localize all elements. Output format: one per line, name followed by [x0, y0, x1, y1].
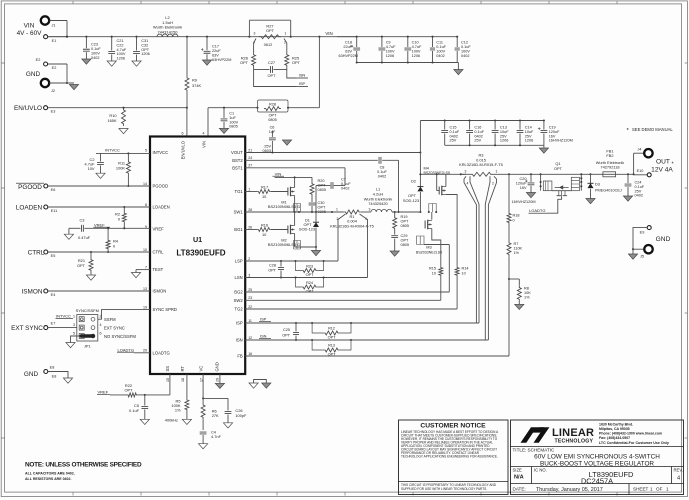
svg-text:15: 15	[166, 378, 170, 382]
svg-text:LOADEN: LOADEN	[16, 205, 43, 212]
svg-text:1uF: 1uF	[269, 130, 276, 134]
svg-text:EN/UVLO: EN/UVLO	[181, 140, 186, 159]
svg-text:E11: E11	[51, 209, 57, 213]
resistor R12 OPT	[311, 322, 352, 339]
capacitor C30 OPT 0805	[309, 201, 326, 214]
svg-text:TECHNOLOGY: TECHNOLOGY	[555, 439, 594, 445]
svg-text:C7: C7	[341, 178, 346, 182]
wire TEST to gnd	[136, 270, 150, 273]
svg-text:OPT: OPT	[240, 60, 249, 65]
svg-text:CTRL: CTRL	[153, 250, 165, 255]
resistor R8 10K 1%	[509, 279, 531, 304]
svg-text:C12: C12	[461, 41, 468, 45]
svg-text:C24: C24	[635, 181, 642, 185]
svg-text:0.1uF: 0.1uF	[635, 185, 645, 189]
svg-text:100V: 100V	[229, 120, 238, 124]
ground R10	[119, 129, 128, 134]
terminal E4	[44, 289, 56, 297]
svg-text:C29: C29	[401, 234, 408, 238]
connector JP1 SYNC/SSFM	[56, 308, 137, 348]
note capacitors	[25, 472, 75, 476]
svg-text:LT8390EUFD: LT8390EUFD	[176, 248, 225, 257]
svg-text:VREF: VREF	[98, 389, 109, 394]
svg-text:2: 2	[492, 182, 494, 186]
wire VC pin	[202, 374, 228, 399]
svg-text:ISN: ISN	[260, 334, 267, 339]
size ic rev row	[513, 468, 683, 486]
svg-text:0.1uF: 0.1uF	[461, 45, 471, 49]
terminal E3	[44, 106, 56, 114]
wire R1 kelvin LSN	[360, 214, 368, 278]
wire R3 kelvin funnel left	[464, 176, 479, 323]
svg-text:VREF: VREF	[94, 222, 105, 227]
ground C17	[202, 60, 211, 65]
wire PGOOD row	[48, 185, 150, 187]
svg-text:0.47uF: 0.47uF	[78, 235, 91, 240]
svg-text:10uF: 10uF	[525, 130, 534, 134]
label GND out	[656, 236, 671, 243]
svg-text:2: 2	[248, 257, 250, 261]
svg-text:LTC Confidential-For Customer: LTC Confidential-For Customer Use Only	[599, 441, 669, 445]
svg-text:C28: C28	[269, 264, 276, 268]
svg-text:OPT: OPT	[306, 273, 314, 277]
svg-text:7: 7	[145, 265, 147, 269]
wire INTVCC	[96, 147, 150, 154]
resistor R20 OPT 0805	[310, 177, 326, 202]
capacitor C10 4.7uF	[404, 37, 422, 63]
wire BST2 row pin24	[245, 159, 378, 161]
connector J4 OUT	[638, 148, 653, 158]
ground C29	[390, 251, 399, 256]
ground R8	[515, 304, 524, 309]
svg-text:18: 18	[181, 378, 185, 382]
label ISMON	[22, 289, 43, 296]
svg-text:100K: 100K	[116, 165, 125, 170]
svg-text:10uF: 10uF	[500, 130, 509, 134]
resistor R11 100K	[116, 153, 130, 187]
diode D2 OPT SOD-123	[403, 153, 424, 213]
svg-text:INTVCC: INTVCC	[105, 147, 120, 152]
svg-text:E1: E1	[52, 39, 57, 43]
svg-text:LSP: LSP	[235, 259, 243, 264]
svg-text:VOUT: VOUT	[231, 150, 243, 155]
svg-text:SIZE: SIZE	[513, 468, 523, 473]
svg-text:0: 0	[513, 218, 515, 222]
svg-text:TEST: TEST	[153, 267, 164, 272]
label VIN 4V-60V	[17, 23, 43, 38]
svg-text:0402: 0402	[341, 187, 349, 191]
svg-text:16: 16	[248, 352, 252, 356]
svg-text:742792118: 742792118	[600, 165, 619, 170]
svg-text:SSFM: SSFM	[104, 317, 116, 322]
wire SS pin	[144, 374, 170, 396]
ground C23	[82, 59, 91, 64]
svg-text:SOD-123: SOD-123	[403, 198, 419, 203]
svg-text:EXT SYNC: EXT SYNC	[11, 325, 43, 332]
svg-text:BSZ100N06LS3 G: BSZ100N06LS3 G	[268, 204, 300, 209]
svg-text:16V: 16V	[520, 186, 527, 190]
ground R5	[182, 419, 191, 424]
svg-text:ISMON: ISMON	[153, 289, 167, 294]
svg-text:FB2: FB2	[606, 153, 613, 158]
svg-text:26: 26	[248, 225, 252, 229]
svg-text:REV.: REV.	[674, 468, 683, 473]
svg-text:1: 1	[496, 170, 498, 174]
ground C6	[282, 140, 291, 145]
svg-text:0805: 0805	[268, 118, 276, 122]
svg-text:29: 29	[215, 378, 219, 382]
svg-text:OPT: OPT	[318, 206, 326, 210]
svg-text:R20: R20	[318, 179, 325, 183]
net LOADTG right	[529, 197, 562, 213]
svg-text:OF: OF	[656, 487, 663, 492]
wire M2 source gnd	[295, 246, 317, 251]
wire BG1 row pin26	[245, 229, 257, 231]
svg-text:10K: 10K	[524, 291, 531, 295]
svg-text:VIN: VIN	[275, 171, 282, 176]
wire VIN local row	[273, 171, 313, 178]
wire TG1 row pin1	[245, 191, 257, 193]
svg-text:R17: R17	[261, 184, 268, 189]
capacitor C25 OPT	[282, 323, 299, 341]
capacitor C1 1uF 100V	[221, 108, 239, 129]
svg-text:KRL3216D-M-R015-F-T5: KRL3216D-M-R015-F-T5	[459, 162, 503, 167]
wire VIN pin feed	[208, 37, 319, 137]
svg-text:3: 3	[369, 208, 371, 212]
svg-text:0612: 0612	[264, 43, 272, 47]
svg-text:R8: R8	[524, 287, 529, 291]
svg-text:Fax: (408)434-0507: Fax: (408)434-0507	[599, 436, 630, 440]
wire ISN row pin12	[245, 334, 488, 340]
date sheet row	[513, 487, 670, 493]
terminal E8	[44, 366, 57, 379]
svg-text:C14: C14	[525, 126, 532, 130]
wire GND pin	[219, 374, 221, 383]
gate loop M3	[417, 236, 450, 245]
svg-text:100V: 100V	[386, 50, 395, 54]
ground M2/D1	[311, 251, 320, 256]
svg-text:R28: R28	[269, 102, 276, 106]
svg-text:ALL RESISTORS ARE 0402.: ALL RESISTORS ARE 0402.	[25, 477, 71, 481]
net ISP stub	[254, 70, 308, 87]
ground J5	[628, 249, 637, 259]
wire JP1 pin5 ground	[71, 336, 80, 343]
svg-text:63V: 63V	[345, 50, 352, 54]
svg-text:FB: FB	[237, 354, 243, 359]
resistor R13 OPT	[311, 339, 352, 356]
svg-text:NOTE: UNLESS OTHERWISE SPECIFI: NOTE: UNLESS OTHERWISE SPECIFIED	[25, 462, 142, 469]
resistor R5 100K 1%	[165, 374, 189, 422]
ground C3	[64, 234, 73, 239]
svg-text:0402: 0402	[635, 194, 643, 198]
op-amp U1 LT8390EUFD	[143, 132, 252, 383]
capacitor C8 0.1uF bootstrap2	[377, 157, 398, 212]
svg-text:25V: 25V	[264, 145, 271, 149]
ground C24	[623, 196, 632, 201]
svg-text:1206: 1206	[500, 139, 508, 143]
resistor R22 OPT	[110, 383, 145, 397]
svg-text:LOADTG: LOADTG	[118, 347, 134, 352]
gate loop M4	[428, 204, 438, 214]
svg-text:1: 1	[336, 208, 338, 212]
svg-text:J4: J4	[638, 148, 642, 152]
capacitor C24 0.1uF 25V	[625, 174, 645, 197]
svg-text:VIN: VIN	[325, 31, 332, 36]
svg-text:OPT: OPT	[282, 334, 290, 338]
svg-text:25V: 25V	[635, 189, 642, 193]
svg-text:10: 10	[143, 248, 147, 252]
svg-text:C25: C25	[283, 328, 290, 332]
svg-text:1206: 1206	[117, 57, 125, 61]
svg-text:TITLE: SCHEMATIC: TITLE: SCHEMATIC	[513, 448, 555, 453]
svg-text:16V: 16V	[549, 134, 556, 138]
ground cap bank	[454, 70, 463, 75]
svg-text:OPT: OPT	[268, 268, 276, 272]
capacitor C21 C22 4.7uF	[108, 37, 127, 61]
wire J1-E1 to rail	[48, 21, 68, 38]
svg-text:5: 5	[145, 148, 147, 152]
ground C5	[140, 419, 149, 424]
svg-text:C6: C6	[270, 126, 275, 130]
wire EXT SYNC row	[48, 327, 77, 329]
svg-text:R16: R16	[261, 222, 268, 227]
ground C1	[219, 128, 228, 133]
logo Linear Technology	[521, 427, 595, 445]
resistor R10 165K	[107, 108, 125, 126]
svg-text:24: 24	[248, 156, 252, 160]
wire output rail top	[419, 173, 466, 175]
svg-text:4.7nF: 4.7nF	[211, 434, 222, 439]
svg-text:C22: C22	[117, 43, 124, 47]
svg-text:OPT: OPT	[77, 263, 86, 268]
wire FB row pin16	[245, 278, 510, 356]
customer notice box	[399, 420, 509, 495]
svg-text:INTVCC: INTVCC	[153, 150, 169, 155]
label PGOOD	[16, 183, 44, 191]
ground E8	[63, 378, 72, 383]
svg-text:0.1uF: 0.1uF	[450, 130, 460, 134]
svg-text:4: 4	[467, 182, 469, 186]
svg-text:20: 20	[143, 349, 147, 353]
svg-text:1: 1	[285, 32, 287, 36]
svg-text:1%: 1%	[514, 251, 520, 255]
svg-text:1%: 1%	[524, 296, 530, 300]
diode D3 PMEG4010CEJ	[588, 173, 622, 198]
svg-text:C30: C30	[318, 201, 325, 205]
svg-text:1206: 1206	[386, 54, 394, 58]
svg-text:JP1: JP1	[84, 344, 91, 349]
svg-text:10V: 10V	[88, 166, 95, 171]
svg-text:25V: 25V	[500, 134, 507, 138]
svg-text:E4: E4	[51, 293, 56, 297]
svg-text:J1: J1	[52, 24, 56, 28]
svg-text:1: 1	[73, 315, 75, 319]
label OUT 12V 4A	[651, 159, 674, 174]
svg-text:LOADTG: LOADTG	[529, 208, 545, 213]
svg-text:OPT: OPT	[125, 388, 134, 393]
svg-text:4: 4	[100, 323, 102, 327]
svg-text:OPT: OPT	[266, 28, 275, 33]
capacitor C9 4.7uF	[379, 37, 397, 63]
svg-text:E3: E3	[51, 110, 56, 114]
svg-text:63HVP22M: 63HVP22M	[212, 58, 231, 62]
svg-text:C21: C21	[117, 39, 124, 43]
terminal E10	[634, 169, 652, 177]
ground JP1	[66, 343, 75, 348]
wire R3 kelvin funnel right	[485, 176, 496, 340]
svg-text:LOADEN: LOADEN	[153, 205, 170, 210]
svg-text:C15: C15	[450, 126, 457, 130]
svg-text:C13: C13	[500, 126, 507, 130]
svg-text:1: 1	[650, 487, 653, 492]
svg-text:OPT: OPT	[401, 239, 409, 243]
svg-text:DATE:: DATE:	[513, 487, 526, 492]
terminal E11	[44, 205, 57, 213]
svg-text:OPT: OPT	[269, 114, 277, 118]
svg-text:1206: 1206	[412, 54, 420, 58]
ground C20	[526, 193, 535, 198]
svg-text:ISMON: ISMON	[22, 289, 43, 296]
svg-text:63V: 63V	[212, 54, 219, 58]
svg-text:ISN: ISN	[299, 73, 306, 78]
connector J5 GND	[632, 228, 653, 259]
svg-text:LOADTG: LOADTG	[153, 350, 170, 355]
svg-text:GND: GND	[26, 71, 41, 78]
ground C21	[107, 61, 116, 66]
label CTRL	[28, 250, 45, 257]
svg-text:VIN: VIN	[202, 141, 207, 148]
svg-text:4.7uF: 4.7uF	[117, 48, 127, 52]
resistor R28 OPT 0805	[258, 100, 289, 122]
ground C2	[96, 173, 105, 178]
svg-text:Phone: (408)432-1900 www.lin: Phone: (408)432-1900 www.linear.com	[599, 432, 662, 436]
svg-text:C32: C32	[141, 43, 148, 47]
svg-text:1630 McCarthy Blvd.: 1630 McCarthy Blvd.	[599, 423, 633, 427]
connector J1 VIN	[41, 16, 67, 27]
svg-text:C8: C8	[380, 166, 385, 170]
svg-text:1uF: 1uF	[229, 116, 236, 120]
resistor R27 OPT snubber	[249, 20, 290, 47]
ground R21	[86, 275, 95, 280]
svg-text:22: 22	[248, 305, 252, 309]
svg-text:3: 3	[254, 32, 256, 36]
svg-text:3: 3	[465, 170, 467, 174]
ground C26	[223, 423, 232, 428]
svg-text:C3: C3	[80, 218, 85, 223]
resistor R2 0	[115, 207, 126, 228]
svg-text:ALL CAPACITORS ARE 0402.: ALL CAPACITORS ARE 0402.	[25, 472, 75, 476]
svg-text:0402: 0402	[474, 134, 482, 138]
transistor M2 BSZ100N06LS3	[268, 212, 300, 247]
svg-text:120uF: 120uF	[549, 130, 560, 134]
svg-text:0402: 0402	[450, 134, 458, 138]
svg-text:E10: E10	[637, 169, 644, 173]
svg-text:BST2: BST2	[232, 158, 243, 163]
svg-text:R14: R14	[462, 267, 469, 271]
resistor R1 0.004 shunt	[330, 208, 374, 229]
capacitor C19 120uF 16V	[538, 121, 573, 146]
gate loop M1	[294, 204, 301, 213]
resistor R14 10	[455, 266, 468, 276]
terminal E5	[44, 250, 56, 258]
wire SW1 row pin28	[245, 211, 399, 213]
net LOADTG stub	[117, 347, 150, 353]
wire TG2 row pin22	[245, 277, 457, 310]
svg-text:SS: SS	[165, 366, 170, 372]
svg-text:M3: M3	[426, 245, 431, 250]
svg-text:E8: E8	[52, 375, 57, 379]
svg-text:C20: C20	[520, 177, 527, 181]
ground C4	[199, 444, 208, 449]
wire cap bank2 rails	[420, 119, 545, 152]
svg-text:PGOOD: PGOOD	[153, 184, 169, 189]
svg-text:11: 11	[248, 319, 252, 323]
svg-text:4: 4	[203, 132, 205, 136]
capacitor C11 0.1uF	[430, 37, 447, 63]
svg-text:OPT: OPT	[141, 48, 149, 52]
svg-text:0.1uF: 0.1uF	[129, 408, 140, 413]
svg-text:OPT: OPT	[554, 166, 563, 171]
svg-text:GND: GND	[24, 371, 39, 378]
capacitor C26 100pF	[225, 398, 247, 422]
svg-text:ISP: ISP	[260, 317, 267, 322]
svg-text:1%: 1%	[175, 408, 181, 413]
svg-text:4.7uF: 4.7uF	[412, 45, 422, 49]
svg-text:Thursday, January 05, 2017: Thursday, January 05, 2017	[536, 487, 603, 493]
svg-text:BG1: BG1	[234, 227, 243, 232]
svg-text:ISP: ISP	[299, 81, 306, 86]
svg-text:TG2: TG2	[235, 307, 244, 312]
wire LOADEN row	[48, 206, 150, 208]
svg-text:0402: 0402	[378, 174, 386, 178]
svg-text:SYNC/SSFM: SYNC/SSFM	[76, 308, 99, 313]
capacitor C23 0.1uF	[83, 37, 101, 60]
svg-text:C10: C10	[412, 41, 419, 45]
svg-text:23: 23	[248, 296, 252, 300]
svg-text:60V LOW EMI SYNCHRONOUS 4-SWIT: 60V LOW EMI SYNCHRONOUS 4-SWITCH	[534, 454, 660, 461]
svg-text:BSZ100N06LS3 G: BSZ100N06LS3 G	[268, 242, 300, 247]
svg-text:19: 19	[143, 305, 147, 309]
wire EN/UVLO row	[48, 107, 188, 137]
wire ISMON row	[48, 290, 150, 292]
svg-text:100pF: 100pF	[235, 413, 247, 418]
svg-text:R9: R9	[192, 78, 197, 83]
svg-text:VC: VC	[198, 366, 203, 372]
svg-text:EXT SYNC: EXT SYNC	[104, 325, 125, 330]
svg-text:GND: GND	[214, 362, 219, 371]
svg-text:63HVP22M: 63HVP22M	[339, 54, 358, 58]
svg-text:C16: C16	[474, 126, 481, 130]
svg-text:PMEG4010CEJ: PMEG4010CEJ	[595, 189, 622, 193]
svg-text:0402: 0402	[91, 56, 99, 60]
wire to J4	[634, 153, 645, 174]
svg-text:6: 6	[100, 331, 102, 335]
terminal E7	[44, 322, 56, 330]
svg-text:BUCK-BOOST VOLTAGE REGULATOR: BUCK-BOOST VOLTAGE REGULATOR	[540, 461, 654, 468]
svg-text:10: 10	[432, 271, 436, 275]
svg-text:SUPPLIED FOR USE WITH LINEAR T: SUPPLIED FOR USE WITH LINEAR TECHNOLOGY …	[401, 487, 487, 491]
wire E8 to gnd	[48, 372, 68, 379]
resistor R21 OPT	[77, 252, 93, 275]
svg-text:12: 12	[248, 336, 252, 340]
capacitor C28 OPT	[268, 261, 284, 279]
label EXT SYNC	[11, 325, 43, 332]
svg-text:4: 4	[677, 476, 680, 482]
svg-text:5: 5	[73, 331, 75, 335]
svg-text:1206: 1206	[141, 52, 149, 56]
svg-text:OPT: OPT	[306, 289, 314, 293]
svg-text:DC2457A: DC2457A	[581, 476, 613, 485]
